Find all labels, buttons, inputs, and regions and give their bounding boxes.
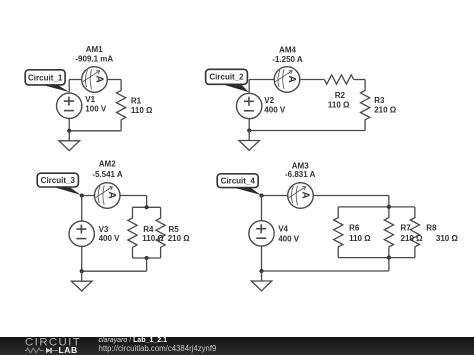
node label flag Circuit_3 [37, 173, 81, 195]
svg-text:110 Ω: 110 Ω [349, 234, 371, 243]
svg-text:210 Ω: 210 Ω [374, 105, 397, 114]
wire: drop to top rail (circuit 3) [146, 196, 148, 208]
wire: V2 bottom to ground node [248, 119, 250, 131]
svg-text:Circuit_4: Circuit_4 [221, 177, 256, 186]
svg-text:A: A [300, 191, 311, 198]
wire: Circuit_2 node to V2 top (vertical) [248, 80, 250, 94]
svg-text:-1.250 A: -1.250 A [272, 55, 303, 64]
node: bottom rail junction (circuit 4) [387, 256, 391, 260]
node label flag Circuit_4 [217, 174, 261, 195]
ammeter AM1 [82, 67, 108, 93]
wire: V4 bottom to ground node [261, 246, 263, 271]
voltage source V4 [249, 221, 274, 246]
ammeter AM2 [94, 183, 120, 209]
voltage source V2 [237, 93, 262, 118]
resistor R8 [410, 207, 419, 258]
wire: Circuit_4 node to AM3 left [262, 195, 288, 197]
voltage source V1 [56, 93, 81, 118]
svg-text:R3: R3 [374, 96, 385, 105]
ammeter AM4 [274, 67, 300, 93]
wire: node down to V4 top [261, 196, 263, 221]
svg-text:100 V: 100 V [85, 104, 107, 113]
node label flag Circuit_2 [206, 69, 249, 92]
footer attribution bar [0, 337, 474, 355]
svg-text:AM4: AM4 [279, 46, 296, 55]
svg-text:R2: R2 [335, 91, 346, 100]
ground (circuit 3) [71, 271, 92, 291]
svg-text:R6: R6 [349, 223, 360, 232]
node: top rail junction (circuit 4) [387, 205, 391, 209]
wire: bottom rail down to return [388, 258, 390, 271]
svg-text:R1: R1 [131, 96, 142, 105]
wire: AM4 right to R2 left [300, 79, 324, 81]
svg-text:V3: V3 [99, 225, 109, 234]
node: top rail junction (circuit 3) [145, 205, 149, 209]
wire: bottom return to V3 (circuit 3) [82, 270, 147, 272]
node: V2-/R3-/ground junction [247, 128, 251, 132]
svg-text:V4: V4 [278, 224, 288, 233]
svg-text:Circuit_1: Circuit_1 [28, 73, 63, 82]
wire: top-left corner to AM1 left [69, 79, 82, 81]
wire: V3 bottom to ground node [81, 247, 83, 272]
ground (circuit 4) [251, 271, 272, 291]
wire: node down to V3 top [81, 196, 83, 222]
node: V4-/ground junction [259, 269, 263, 273]
svg-text:AM2: AM2 [99, 160, 116, 169]
wire: bottom rail R6-R7-R8 [338, 257, 415, 259]
wire: bottom return (ground node to R1 bottom) [69, 130, 121, 132]
svg-text:AM1: AM1 [86, 45, 103, 54]
wire: top corner to AM4 left [249, 79, 274, 81]
wire: V1 bottom to ground node [68, 118, 70, 130]
node: Circuit_3 / V3 top junction [80, 193, 84, 197]
svg-text:400 V: 400 V [278, 234, 300, 243]
svg-text:310 Ω: 310 Ω [436, 234, 459, 243]
ammeter AM3 [288, 183, 314, 209]
svg-text:R8: R8 [426, 223, 437, 232]
CircuitLab logo [25, 337, 95, 355]
node: V3-/ground junction [80, 269, 84, 273]
svg-text:Circuit_3: Circuit_3 [41, 176, 76, 185]
svg-text:AM3: AM3 [292, 161, 309, 170]
svg-text:A: A [286, 75, 297, 82]
ground (circuit 2) [239, 131, 260, 151]
wire: top rail R4-R5 [133, 206, 161, 208]
svg-text:V1: V1 [85, 95, 95, 104]
wire: AM1 right to R1 top corner [107, 79, 121, 81]
svg-text:A: A [106, 191, 117, 198]
svg-text:110 Ω: 110 Ω [142, 234, 164, 243]
wire: bottom return to V4 (circuit 4) [262, 270, 389, 272]
svg-text:Circuit_2: Circuit_2 [209, 73, 244, 82]
voltage source V3 [69, 221, 94, 246]
node: Circuit_4 / V4 top junction [259, 193, 263, 197]
svg-text:210 Ω: 210 Ω [401, 234, 424, 243]
svg-text:R7: R7 [401, 223, 412, 232]
svg-text:400 V: 400 V [264, 106, 286, 115]
resistor R3 [361, 80, 370, 131]
resistor R1 [117, 80, 126, 131]
svg-text:-6.831 A: -6.831 A [285, 170, 316, 179]
svg-text:210 Ω: 210 Ω [168, 234, 191, 243]
node label flag Circuit_1 [25, 70, 69, 92]
svg-text:A: A [94, 75, 105, 82]
node: V1-/R1-/ground junction [67, 129, 71, 133]
svg-text:110 Ω: 110 Ω [328, 100, 350, 109]
svg-text:V2: V2 [264, 96, 274, 105]
wire: R2 right to R3 top corner [354, 79, 365, 81]
footer text: author / title [99, 337, 217, 353]
wire: Circuit_3 node to AM2 left [82, 195, 95, 197]
wire: AM3 right to parallel bank top [313, 195, 389, 197]
wire: bottom rail R4-R5 [133, 257, 161, 259]
wire: bottom rail down to return [146, 258, 148, 271]
resistor R6 [334, 207, 343, 258]
wire: drop to top rail (circuit 4) [388, 196, 390, 207]
node: bottom rail junction (circuit 3) [145, 256, 149, 260]
wire: top rail R6-R7-R8 [338, 206, 415, 208]
svg-text:-909.1 mA: -909.1 mA [75, 55, 113, 64]
resistor R4 [128, 207, 137, 258]
svg-text:R5: R5 [169, 225, 180, 234]
wire: Circuit_1 node to V1 top (vertical) [68, 80, 70, 94]
resistor R5 [156, 207, 165, 258]
resistor R2 [324, 75, 353, 84]
wire: bottom return (ground node to R3 bottom) [249, 130, 365, 132]
svg-text:400 V: 400 V [99, 234, 121, 243]
svg-text:-5.541 A: -5.541 A [92, 170, 123, 179]
resistor R7 [384, 207, 393, 258]
ground (circuit 1) [59, 131, 80, 151]
svg-text:110 Ω: 110 Ω [131, 106, 153, 115]
wire: AM2 right to parallel bank top [120, 195, 147, 197]
svg-text:R4: R4 [143, 225, 154, 234]
